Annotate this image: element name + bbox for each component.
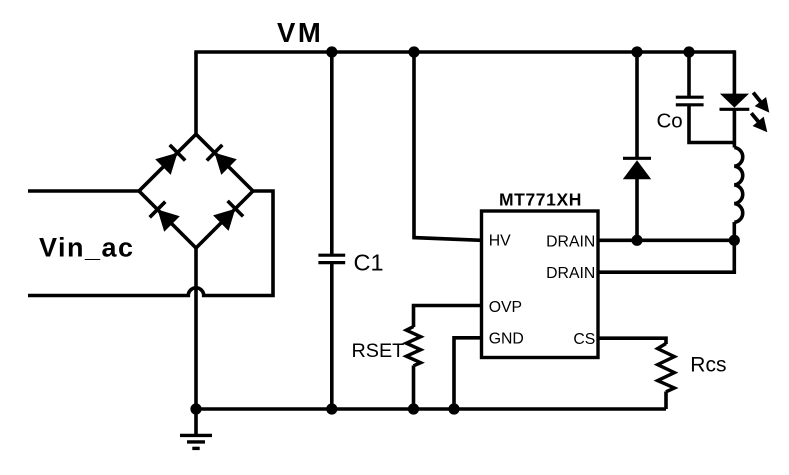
node: junction dot (GND branch / ground rail)	[448, 403, 459, 414]
wire: RSET bottom to ground rail	[412, 366, 416, 410]
wire: VM top rail	[194, 50, 735, 54]
ground symbol	[180, 409, 212, 448]
wire: LED cathode down to inductor top	[733, 110, 737, 148]
bridge diode (bottom-right)	[213, 201, 243, 231]
node: junction dot (VM rail / HV branch)	[408, 46, 419, 57]
node: junction dot (VM rail / freewheel diode)	[631, 46, 642, 57]
bridge diode (top-right)	[207, 145, 237, 175]
svg-text:C1: C1	[354, 250, 384, 276]
wire: DRAIN pin 1 to drain node	[598, 239, 734, 243]
LED emission arrow 2	[751, 113, 761, 124]
LED emission arrow 1	[753, 93, 763, 105]
resistor Rcs zigzag	[658, 344, 675, 392]
wire: Co bottom plate to inductor top junction	[689, 106, 734, 143]
capacitor C1 plates	[318, 255, 345, 262]
svg-text:OVP: OVP	[489, 299, 522, 316]
bridge rectifier diamond frame	[139, 134, 253, 248]
svg-text:MT771XH: MT771XH	[499, 189, 582, 209]
inductor (output coil, 4 turns)	[734, 148, 742, 223]
node: junction dot (drain node / inductor bottom)	[729, 235, 740, 246]
op IC U1 MT771XH box	[482, 211, 599, 358]
svg-text:Vin_ac: Vin_ac	[39, 233, 135, 263]
svg-text:DRAIN: DRAIN	[546, 265, 595, 282]
wire: freewheel diode cathode up to VM rail	[635, 52, 639, 157]
node: junction dot (ground node)	[190, 403, 201, 414]
freewheel diode (anode at drain node, cathode to VM)	[623, 158, 651, 179]
node: junction dot (VM rail / C1)	[326, 46, 337, 57]
wire: bottom ground rail	[196, 407, 666, 411]
capacitor Co plates	[676, 97, 704, 105]
node: junction dot (VM rail / Co)	[683, 46, 694, 57]
bridge diode (bottom-left)	[150, 202, 180, 232]
svg-text:HV: HV	[489, 233, 511, 250]
wire: lower AC input with hop over bridge-bottom wire, to bridge right corner	[28, 191, 273, 296]
svg-text:DRAIN: DRAIN	[546, 233, 595, 250]
wire: bridge bottom corner down to ground node	[194, 246, 198, 409]
wire: C1 branch lower segment	[330, 264, 334, 409]
node: junction dot (RSET bottom / ground rail)	[408, 403, 419, 414]
wire: GND pin branch down to ground rail	[454, 338, 482, 409]
wire: upper AC input	[28, 189, 141, 193]
LED diode (output LED)	[720, 94, 750, 110]
wire: HV branch from VM rail to pin HV	[414, 52, 482, 240]
wire: bridge top corner up to VM rail	[194, 52, 198, 136]
svg-text:Rcs: Rcs	[690, 354, 726, 377]
resistor RSET zigzag	[406, 327, 420, 366]
wire: Rcs bottom to ground rail	[664, 392, 668, 410]
svg-text:Co: Co	[657, 110, 683, 133]
svg-text:RSET: RSET	[352, 340, 405, 362]
wire: CS pin to Rcs top	[598, 338, 666, 344]
wire: DRAIN pin 2 to drain node	[598, 240, 734, 272]
wire: Co branch from VM rail to top plate	[687, 52, 691, 96]
svg-text:VM: VM	[277, 17, 323, 48]
wire: LED anode from VM rail corner	[733, 50, 737, 94]
node: junction dot (C1 bottom / ground rail)	[326, 403, 337, 414]
svg-text:GND: GND	[489, 331, 524, 348]
bridge diode (top-left)	[155, 145, 185, 175]
wire: inductor bottom to drain node	[732, 222, 736, 240]
wire: OVP branch from pin OVP to RSET top	[414, 306, 482, 328]
wire: freewheel diode anode down to drain node	[635, 179, 639, 241]
wire: C1 branch upper segment	[330, 52, 334, 254]
node: junction dot (freewheel diode / drain line)	[631, 235, 642, 246]
svg-text:CS: CS	[573, 331, 595, 348]
